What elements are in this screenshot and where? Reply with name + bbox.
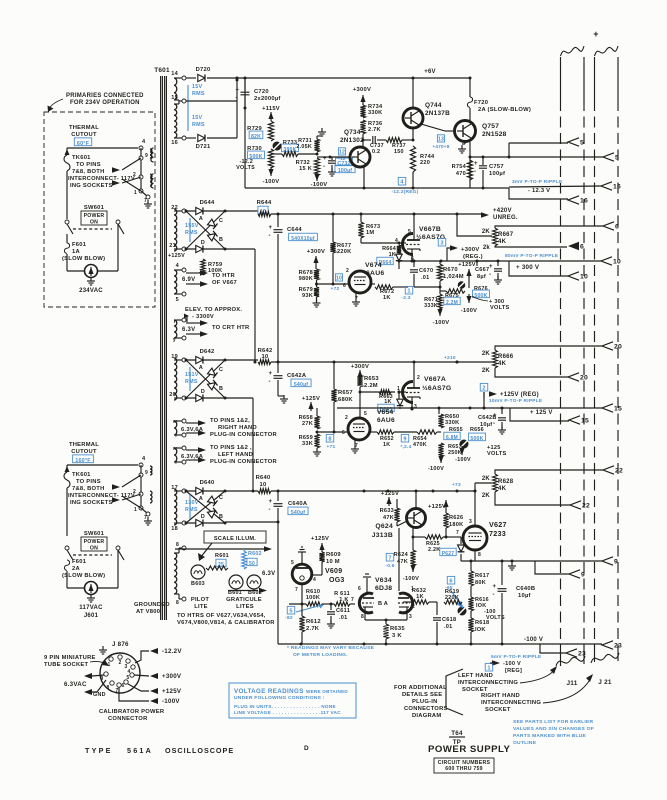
svg-text:GND: GND	[93, 692, 106, 698]
svg-text:+125V: +125V	[162, 688, 182, 695]
svg-text:7: 7	[144, 515, 147, 521]
svg-text:2N1302: 2N1302	[340, 137, 364, 144]
svg-text:220K: 220K	[337, 249, 351, 255]
svg-text:50: 50	[249, 561, 255, 567]
svg-text:.01: .01	[444, 624, 453, 630]
svg-text:6: 6	[615, 224, 619, 231]
svg-text:[REG]: [REG]	[505, 668, 522, 674]
svg-text:7: 7	[115, 688, 118, 694]
svg-text:1,024M: 1,024M	[443, 274, 464, 280]
svg-text:B: B	[219, 386, 223, 392]
svg-text:OUTLINE: OUTLINE	[513, 740, 537, 746]
svg-text:R657: R657	[338, 390, 353, 396]
svg-text:1M: 1M	[366, 230, 374, 236]
svg-text:R602: R602	[248, 551, 262, 557]
svg-text:F720: F720	[474, 100, 488, 106]
svg-text:+: +	[593, 29, 599, 39]
svg-text:ING SOCKETS: ING SOCKETS	[70, 500, 113, 506]
svg-text:15V: 15V	[192, 84, 202, 90]
svg-text:220K: 220K	[445, 595, 459, 601]
svg-text:-100V: -100V	[455, 457, 471, 463]
svg-text:PLUG-IN CONNECTOR: PLUG-IN CONNECTOR	[210, 432, 278, 438]
svg-text:1: 1	[134, 507, 137, 513]
svg-text:VOLTS: VOLTS	[236, 165, 255, 171]
svg-text:6: 6	[121, 683, 124, 689]
svg-text:1: 1	[134, 190, 137, 196]
svg-text:540X10µf: 540X10µf	[291, 236, 315, 242]
svg-text:2A: 2A	[72, 566, 80, 572]
svg-text:-: -	[269, 379, 271, 385]
svg-text:R628: R628	[498, 479, 514, 485]
svg-text:6DJ8: 6DJ8	[375, 585, 392, 592]
svg-text:2A (SLOW-BLOW): 2A (SLOW-BLOW)	[478, 107, 531, 113]
svg-text:4K: 4K	[498, 239, 507, 245]
svg-text:D721: D721	[196, 144, 211, 150]
svg-text:.01: .01	[421, 275, 430, 281]
svg-text:7: 7	[456, 530, 459, 536]
svg-text:82K: 82K	[251, 134, 261, 140]
svg-text:THERMAL: THERMAL	[69, 442, 99, 448]
svg-text:1: 1	[407, 289, 410, 295]
svg-text:+210: +210	[444, 355, 456, 361]
svg-text:16: 16	[580, 198, 588, 205]
svg-text:A: A	[199, 365, 203, 371]
svg-text:C640A: C640A	[288, 501, 308, 507]
svg-text:22: 22	[582, 503, 590, 510]
svg-text:+: +	[493, 584, 497, 590]
svg-text:33K: 33K	[302, 441, 313, 447]
svg-text:+73: +73	[452, 482, 461, 488]
svg-text:(SLOW BLOW): (SLOW BLOW)	[62, 573, 105, 579]
svg-text:r: r	[174, 319, 176, 325]
svg-text:2K: 2K	[482, 476, 491, 482]
svg-text:+125V: +125V	[381, 491, 399, 497]
svg-text:SCALE ILLUM.: SCALE ILLUM.	[214, 536, 256, 542]
svg-text:R653: R653	[364, 376, 379, 382]
svg-text:6AU6: 6AU6	[366, 270, 384, 277]
svg-text:7233: 7233	[489, 529, 506, 538]
svg-text:8µf: 8µf	[477, 274, 486, 280]
svg-text:27K: 27K	[302, 421, 313, 427]
svg-text:234VAC: 234VAC	[79, 288, 103, 294]
svg-text:9: 9	[403, 437, 406, 443]
svg-text:+125V: +125V	[302, 396, 320, 402]
svg-text:47K: 47K	[383, 515, 394, 521]
svg-text:- 12.3 V: - 12.3 V	[528, 188, 550, 194]
svg-text:6.3VAC: 6.3VAC	[64, 681, 87, 688]
svg-text:5: 5	[291, 560, 294, 566]
svg-text:D644: D644	[200, 200, 215, 206]
svg-text:TO CRT HTR: TO CRT HTR	[212, 325, 250, 331]
svg-text:PLUG IN UNITS. . . . . . . .: PLUG IN UNITS. . . . . . . . . . . . . .…	[234, 704, 336, 709]
svg-text:7: 7	[351, 597, 354, 603]
svg-text:10mV P-TO-P RIPPLE: 10mV P-TO-P RIPPLE	[489, 398, 543, 404]
svg-text:f: f	[175, 460, 177, 466]
svg-text:23: 23	[614, 643, 622, 650]
svg-text:Q624: Q624	[375, 523, 393, 530]
svg-text:CONNECTORS: CONNECTORS	[404, 706, 448, 712]
svg-text:2K: 2K	[482, 229, 491, 235]
svg-text:-100 V: -100 V	[503, 661, 521, 667]
svg-text:6: 6	[342, 430, 345, 436]
svg-text:TO PINS: TO PINS	[76, 162, 101, 168]
svg-text:1K: 1K	[383, 295, 391, 301]
svg-text:WERE OBTAINED: WERE OBTAINED	[306, 689, 348, 694]
svg-text:J 876: J 876	[112, 641, 129, 648]
svg-text:2N137B: 2N137B	[425, 110, 450, 117]
svg-text:-100V: -100V	[403, 576, 419, 582]
svg-text:y: y	[173, 337, 176, 343]
svg-text:-: -	[269, 233, 271, 239]
svg-text:R624: R624	[394, 552, 409, 558]
svg-text:C732: C732	[337, 161, 350, 167]
svg-text:A: A	[199, 496, 203, 502]
svg-text:V674,V800,V814, & CALIBRATOR: V674,V800,V814, & CALIBRATOR	[177, 620, 275, 626]
svg-text:17: 17	[171, 485, 178, 491]
svg-text:C611: C611	[336, 608, 350, 614]
svg-text:2K: 2K	[482, 368, 491, 374]
svg-text:+300V: +300V	[162, 673, 182, 680]
svg-text:20: 20	[169, 392, 176, 398]
svg-text:+: +	[474, 161, 478, 167]
svg-text:C: C	[219, 495, 223, 501]
svg-text:23: 23	[578, 651, 586, 658]
svg-text:2.2M: 2.2M	[446, 300, 458, 306]
svg-text:+300V: +300V	[351, 364, 369, 370]
svg-text:+: +	[489, 264, 493, 270]
svg-text:SW601: SW601	[84, 205, 105, 211]
svg-text:AT V800: AT V800	[136, 609, 160, 615]
svg-text:½6AS7G: ½6AS7G	[422, 384, 451, 392]
svg-text:FOR 234V OPERATION: FOR 234V OPERATION	[70, 100, 140, 106]
svg-text:PLUG-IN CONNECTOR: PLUG-IN CONNECTOR	[210, 459, 278, 465]
svg-text:* READINGS MAY VARY BECAUS: * READINGS MAY VARY BECAUSE	[287, 645, 375, 651]
svg-text:PLUG-IN: PLUG-IN	[412, 699, 438, 705]
svg-text:180K: 180K	[449, 522, 463, 528]
svg-text:470: 470	[456, 171, 466, 177]
svg-text:C: C	[219, 367, 223, 373]
svg-text:R633: R633	[380, 508, 394, 514]
svg-text:Q744: Q744	[425, 102, 442, 109]
svg-text:60°F: 60°F	[77, 141, 90, 147]
svg-text:C757: C757	[489, 164, 504, 170]
svg-text:J601: J601	[84, 613, 99, 619]
svg-text:D642: D642	[200, 349, 215, 355]
svg-text:TO PINS 1&2,: TO PINS 1&2,	[210, 418, 250, 424]
svg-text:C720: C720	[254, 89, 269, 95]
svg-text:TO PINS 1&2 ,: TO PINS 1&2 ,	[210, 445, 252, 451]
svg-text:C670: C670	[419, 268, 433, 274]
svg-text:10 M: 10 M	[326, 559, 340, 565]
svg-text:19: 19	[171, 354, 178, 360]
svg-text:R640: R640	[256, 475, 271, 481]
svg-text:VOLTS: VOLTS	[487, 451, 507, 457]
svg-text:20: 20	[580, 375, 588, 382]
svg-text:PARTS MARKED WITH BLUE: PARTS MARKED WITH BLUE	[513, 733, 587, 739]
svg-text:10µf: 10µf	[480, 422, 492, 428]
svg-text:8: 8	[328, 437, 331, 443]
svg-text:SW601: SW601	[84, 531, 105, 537]
svg-text:.01: .01	[339, 615, 348, 621]
svg-text:UNREG.: UNREG.	[493, 215, 518, 221]
svg-text:Q734: Q734	[344, 129, 361, 136]
svg-text:+: +	[236, 88, 240, 94]
svg-text:12: 12	[339, 150, 345, 156]
svg-text:C618: C618	[442, 617, 456, 623]
svg-text:+125V: +125V	[311, 536, 329, 542]
svg-text:-: -	[493, 592, 495, 598]
svg-text:6: 6	[343, 283, 346, 289]
svg-text:540µf: 540µf	[294, 382, 308, 388]
svg-text:OSCILLOSCOPE: OSCILLOSCOPE	[165, 746, 234, 755]
svg-text:R754: R754	[452, 164, 467, 170]
svg-text:TK601: TK601	[72, 155, 91, 161]
svg-text:LINE VOLTAGE . . . . . . . .: LINE VOLTAGE . . . . . . . . . . . . . .…	[234, 710, 341, 715]
svg-text:CUTOUT: CUTOUT	[71, 449, 97, 455]
svg-text:-82: -82	[285, 615, 293, 621]
svg-text:16: 16	[171, 140, 178, 146]
svg-text:330K: 330K	[368, 110, 382, 116]
svg-text:2K: 2K	[482, 351, 491, 357]
svg-text:8: 8	[176, 542, 179, 548]
svg-text:w: w	[172, 419, 177, 425]
svg-text:LITES: LITES	[236, 604, 254, 610]
svg-text:1: 1	[487, 666, 490, 672]
svg-text:6.3V: 6.3V	[182, 327, 195, 333]
svg-text:RMS: RMS	[192, 122, 205, 128]
svg-text:OG3: OG3	[329, 577, 345, 584]
svg-text:100K: 100K	[306, 595, 320, 601]
svg-text:V634: V634	[375, 577, 392, 584]
svg-text:5: 5	[126, 675, 129, 681]
svg-text:ING SOCKETS: ING SOCKETS	[70, 183, 113, 189]
svg-text:R644: R644	[257, 200, 272, 206]
svg-text:ON: ON	[90, 220, 98, 226]
svg-text:3 K: 3 K	[392, 633, 402, 639]
svg-text:2: 2	[133, 172, 136, 178]
svg-text:47K: 47K	[397, 559, 408, 565]
svg-text:FOR ADDITIONAL: FOR ADDITIONAL	[394, 685, 447, 691]
svg-text:DETAILS SEE: DETAILS SEE	[402, 692, 442, 698]
svg-text:INTERCONNECTING: INTERCONNECTING	[481, 700, 541, 706]
svg-text:-100V: -100V	[428, 466, 444, 472]
svg-text:561A: 561A	[127, 746, 153, 755]
svg-text:V667B: V667B	[419, 226, 441, 233]
svg-text:f: f	[175, 433, 177, 439]
svg-text:V667A: V667A	[424, 376, 446, 383]
svg-text:100µf: 100µf	[489, 171, 505, 177]
svg-text:7&8, BOTH: 7&8, BOTH	[72, 486, 105, 492]
svg-text:8: 8	[106, 685, 109, 691]
svg-text:D720: D720	[196, 67, 211, 73]
svg-text:5: 5	[408, 229, 411, 235]
svg-text:-0.6: -0.6	[385, 563, 394, 569]
svg-text:100µf: 100µf	[338, 168, 352, 174]
svg-text:- 3300V: - 3300V	[192, 314, 214, 320]
svg-text:15V: 15V	[192, 115, 202, 121]
svg-text:15: 15	[581, 418, 589, 425]
svg-text:R675: R675	[445, 293, 459, 299]
svg-text:2.2K: 2.2K	[428, 547, 440, 553]
svg-text:RMS: RMS	[192, 91, 205, 97]
svg-text:16: 16	[613, 184, 621, 191]
svg-text:RMS: RMS	[185, 507, 198, 513]
svg-text:J313B: J313B	[372, 532, 393, 539]
svg-text:6.8M: 6.8M	[446, 435, 458, 441]
svg-text:600 THRU 759: 600 THRU 759	[445, 766, 483, 772]
svg-text:C640B: C640B	[516, 586, 535, 592]
svg-text:Q757: Q757	[482, 123, 499, 130]
svg-text:13: 13	[438, 137, 444, 143]
svg-text:250K: 250K	[448, 450, 462, 456]
svg-text:9: 9	[581, 572, 585, 579]
svg-text:B: B	[219, 514, 223, 520]
svg-text:R667: R667	[498, 232, 514, 238]
svg-text:500K: 500K	[470, 436, 483, 442]
svg-text:1K: 1K	[416, 594, 424, 600]
svg-text:-: -	[493, 421, 495, 427]
svg-text:10: 10	[613, 259, 621, 266]
svg-text:+6V: +6V	[424, 69, 436, 75]
svg-text:5: 5	[289, 609, 292, 615]
svg-text:+300V: +300V	[307, 249, 325, 255]
svg-text:R733: R733	[283, 140, 297, 146]
svg-text:*,2.4: *,2.4	[400, 444, 411, 450]
svg-text:6.3V: 6.3V	[262, 571, 275, 577]
svg-text:T64: T64	[451, 730, 463, 737]
svg-text:333K: 333K	[424, 303, 438, 309]
svg-text:-: -	[323, 164, 325, 170]
svg-text:18: 18	[171, 526, 178, 532]
svg-text:A: A	[199, 216, 203, 222]
svg-text:R618: R618	[475, 620, 489, 626]
svg-text:C642A: C642A	[287, 373, 307, 379]
svg-text:8: 8	[176, 600, 179, 606]
svg-text:2x2000µf: 2x2000µf	[254, 96, 281, 102]
svg-text:GRATICULE: GRATICULE	[226, 597, 262, 603]
svg-text:9 PIN MINIATURE: 9 PIN MINIATURE	[44, 655, 96, 661]
svg-text:150: 150	[394, 149, 404, 155]
svg-text:2.7K: 2.7K	[368, 127, 381, 133]
svg-text:R666: R666	[498, 354, 514, 360]
svg-text:J11: J11	[566, 680, 577, 687]
svg-text:A: A	[384, 601, 388, 607]
svg-text:R635: R635	[390, 626, 405, 632]
svg-text:+125V (REG): +125V (REG)	[500, 392, 539, 398]
svg-text:980K: 980K	[299, 276, 313, 282]
svg-text:+72: +72	[331, 286, 340, 292]
svg-text:6AU6: 6AU6	[377, 417, 395, 424]
svg-text:15: 15	[614, 406, 622, 413]
svg-text:INTERCONNECTING: INTERCONNECTING	[458, 680, 518, 686]
svg-text:TO HTR: TO HTR	[212, 273, 236, 279]
svg-text:14: 14	[171, 71, 178, 77]
svg-text:R601: R601	[215, 553, 229, 559]
svg-text:w: w	[172, 446, 177, 452]
svg-text:6: 6	[580, 244, 584, 251]
svg-text:-12.2V: -12.2V	[162, 648, 182, 655]
svg-text:SEE PARTS LIST FOR EARLIER: SEE PARTS LIST FOR EARLIER	[513, 719, 594, 725]
svg-text:7&8, BOTH: 7&8, BOTH	[72, 169, 105, 175]
svg-text:6.9V: 6.9V	[182, 277, 195, 283]
svg-text:+115V: +115V	[262, 106, 280, 112]
svg-text:J 21: J 21	[598, 679, 612, 686]
svg-text:GROUNDED: GROUNDED	[134, 602, 170, 608]
svg-text:7: 7	[295, 587, 298, 593]
svg-text:D: D	[201, 240, 205, 246]
svg-text:10: 10	[262, 354, 269, 360]
svg-text:-: -	[269, 507, 271, 513]
svg-text:OF METER LOADING.: OF METER LOADING.	[293, 652, 348, 658]
svg-text:+: +	[269, 499, 273, 505]
svg-text:RIGHT HAND: RIGHT HAND	[218, 425, 257, 431]
svg-text:155V: 155V	[185, 223, 199, 229]
svg-text:SOCKET: SOCKET	[485, 707, 511, 713]
svg-text:-2.3: -2.3	[401, 295, 410, 301]
svg-text:160°F: 160°F	[75, 458, 91, 464]
svg-text:2.2M: 2.2M	[364, 383, 378, 389]
svg-text:540µf: 540µf	[291, 510, 305, 516]
svg-text:22: 22	[615, 468, 623, 475]
svg-text:3mV P-TO-P RIPPLE: 3mV P-TO-P RIPPLE	[512, 179, 563, 185]
svg-text:RMS: RMS	[185, 230, 198, 236]
svg-text:TUBE SOCKET: TUBE SOCKET	[44, 662, 89, 668]
svg-text:IOK: IOK	[475, 627, 486, 633]
svg-text:+125V: +125V	[458, 262, 476, 268]
svg-text:V654: V654	[377, 409, 393, 416]
svg-text:20: 20	[614, 344, 622, 351]
svg-text:R617: R617	[475, 573, 489, 579]
svg-text:C: C	[219, 218, 223, 224]
svg-text:3: 3	[469, 519, 472, 525]
svg-text:(SLOW BLOW): (SLOW BLOW)	[62, 256, 105, 262]
svg-text:6: 6	[449, 579, 452, 585]
svg-text:LITE: LITE	[194, 604, 208, 610]
svg-text:9: 9	[145, 153, 148, 159]
svg-text:15: 15	[171, 95, 178, 101]
svg-text:D: D	[201, 514, 205, 520]
svg-text:9: 9	[614, 559, 618, 566]
svg-text:3: 3	[440, 241, 443, 247]
svg-text:2N1528: 2N1528	[482, 131, 507, 138]
svg-text:3: 3	[409, 614, 412, 620]
svg-text:+ 125 V: + 125 V	[530, 410, 553, 416]
svg-text:9: 9	[145, 470, 148, 476]
svg-text:130V: 130V	[185, 500, 199, 506]
svg-text:3: 3	[414, 404, 417, 410]
svg-text:2.05K: 2.05K	[296, 144, 312, 150]
svg-text:LEFT HAND: LEFT HAND	[218, 452, 253, 458]
svg-text:R612: R612	[306, 619, 321, 625]
svg-text:7: 7	[144, 198, 147, 204]
svg-text:C644: C644	[287, 227, 302, 233]
svg-text:4K: 4K	[498, 361, 507, 367]
svg-text:PRIMARIES CONNECTED: PRIMARIES CONNECTED	[66, 93, 144, 99]
svg-text:80K: 80K	[475, 580, 486, 586]
svg-text:5: 5	[364, 411, 367, 417]
svg-text:V609: V609	[325, 568, 342, 575]
svg-text:1K: 1K	[383, 442, 390, 448]
svg-text:R676: R676	[474, 286, 488, 292]
svg-text:1 K: 1 K	[339, 597, 348, 603]
svg-text:F601: F601	[72, 559, 87, 565]
svg-text:PILOT: PILOT	[191, 597, 210, 603]
svg-text:1A: 1A	[72, 249, 80, 255]
svg-text:-12.2(REG): -12.2(REG)	[391, 189, 418, 195]
svg-text:2: 2	[118, 660, 121, 666]
svg-text:-100V: -100V	[433, 320, 450, 326]
svg-text:7: 7	[388, 556, 391, 562]
